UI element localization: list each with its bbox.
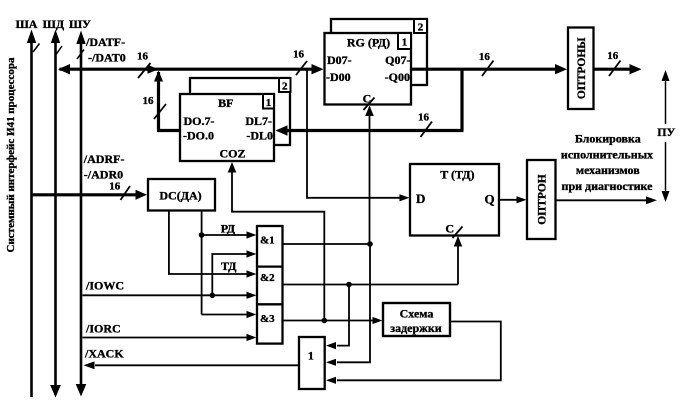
svg-text:РД: РД xyxy=(221,222,236,236)
svg-text:/DATF-: /DATF- xyxy=(85,35,125,49)
svg-text:DO.7-: DO.7- xyxy=(184,114,215,128)
svg-text:-Q00: -Q00 xyxy=(385,70,410,84)
svg-text:16: 16 xyxy=(143,95,155,107)
svg-text:16: 16 xyxy=(137,51,149,63)
svg-text:COZ: COZ xyxy=(219,147,245,161)
svg-text:DL7-: DL7- xyxy=(245,114,272,128)
svg-text:Q: Q xyxy=(485,191,495,206)
svg-text:&2: &2 xyxy=(260,272,275,284)
svg-text:-/DAT0: -/DAT0 xyxy=(88,51,126,65)
svg-text:BF: BF xyxy=(218,96,233,110)
svg-text:при диагностике: при диагностике xyxy=(562,179,654,193)
svg-text:ПУ: ПУ xyxy=(657,125,675,139)
svg-text:16: 16 xyxy=(109,181,121,193)
svg-text:2: 2 xyxy=(418,22,424,34)
svg-text:C: C xyxy=(363,92,372,106)
svg-text:ОПТРОНЫ: ОПТРОНЫ xyxy=(576,37,588,99)
svg-text:&3: &3 xyxy=(260,313,275,325)
svg-text:D07-: D07- xyxy=(327,53,352,67)
svg-text:T (ТД): T (ТД) xyxy=(440,168,474,182)
svg-text:D: D xyxy=(416,191,425,206)
svg-text:исполнительных: исполнительных xyxy=(561,147,653,161)
svg-text:ШД: ШД xyxy=(43,17,65,31)
svg-text:механизмов: механизмов xyxy=(576,163,640,177)
svg-text:DC(ДА): DC(ДА) xyxy=(159,189,201,203)
svg-text:-/ADR0: -/ADR0 xyxy=(84,168,123,182)
svg-text:-D00: -D00 xyxy=(326,70,351,84)
svg-text:1: 1 xyxy=(266,97,272,109)
svg-text:1: 1 xyxy=(402,37,408,49)
svg-text:1: 1 xyxy=(308,349,314,363)
svg-text:2: 2 xyxy=(282,81,288,93)
svg-text:&1: &1 xyxy=(260,234,275,246)
svg-text:-DL0: -DL0 xyxy=(246,129,273,143)
svg-text:Блокировка: Блокировка xyxy=(575,132,641,146)
svg-text:Схема: Схема xyxy=(400,307,434,321)
svg-text:16: 16 xyxy=(293,49,305,61)
svg-text:Q07-: Q07- xyxy=(385,53,410,67)
svg-text:C: C xyxy=(445,221,454,235)
svg-text:задержки: задержки xyxy=(390,321,442,335)
svg-text:/ADRF-: /ADRF- xyxy=(83,152,125,166)
svg-text:/IORC: /IORC xyxy=(85,322,121,336)
svg-text:ОПТРОН: ОПТРОН xyxy=(537,174,549,224)
svg-text:/XACK: /XACK xyxy=(84,347,124,361)
svg-text:ШУ: ШУ xyxy=(69,17,91,31)
svg-text:RG (РД): RG (РД) xyxy=(347,36,390,50)
svg-text:16: 16 xyxy=(418,112,430,124)
svg-text:ША: ША xyxy=(16,17,38,31)
svg-text:-DO.0: -DO.0 xyxy=(183,129,214,143)
svg-text:16: 16 xyxy=(479,51,491,63)
svg-text:ТД: ТД xyxy=(221,259,237,273)
svg-text:Системный интерфейс И41 процес: Системный интерфейс И41 процессора xyxy=(5,57,17,252)
svg-text:/IOWC: /IOWC xyxy=(85,279,124,293)
svg-text:16: 16 xyxy=(607,50,619,62)
